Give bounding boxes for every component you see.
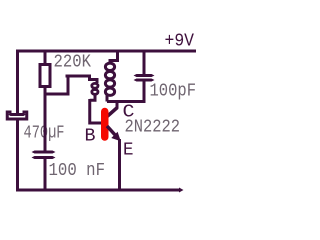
- wire C4 bottom lead to ground rail: [44, 159, 47, 190]
- wire ground rail (bottom): [16, 189, 180, 192]
- inductor L1 primary loop 4: [105, 88, 114, 95]
- capacitor C1 100pF top plate: [134, 74, 155, 77]
- capacitor C4 100nF bottom plate: [32, 156, 56, 159]
- capacitor C1 100pF top lead from rail: [143, 51, 146, 74]
- transistor Q1 collector diagonal: [107, 108, 118, 118]
- capacitor C1 100pF bottom lead: [143, 82, 146, 102]
- inductor L1 primary loop 2: [105, 71, 114, 78]
- svg-text:220K: 220K: [54, 53, 92, 73]
- inductor L1 secondary loop 1: [92, 83, 98, 88]
- inductor L1 secondary bottom lead: [90, 94, 95, 100]
- capacitor C2 470uF top plate: [8, 113, 26, 116]
- inductor L1 secondary loop 2: [92, 90, 98, 95]
- ground rail end tick: [179, 188, 184, 193]
- transistor Q1 emitter lead vertical to ground rail: [118, 139, 121, 191]
- resistor R1 top lead: [44, 51, 47, 63]
- transistor Q1 emitter diagonal: [107, 126, 116, 136]
- transistor Q1 emitter arrowhead: [111, 132, 121, 142]
- svg-text:100pF: 100pF: [150, 82, 197, 102]
- transistor Q1 collector lead vertical: [116, 100, 119, 109]
- svg-text:100 nF: 100 nF: [49, 161, 106, 181]
- inductor L1 primary loop 1: [105, 63, 114, 70]
- svg-text:E: E: [123, 141, 134, 161]
- svg-text:B: B: [85, 127, 96, 147]
- wire node jog to feedback winding: [44, 76, 69, 94]
- wire C2 bottom to ground rail: [16, 121, 19, 192]
- capacitor C1 100pF bottom plate: [134, 79, 155, 82]
- transistor Q1 base bar: [101, 112, 109, 138]
- wire base down-then-right: [90, 99, 102, 123]
- wire node down to C4: [44, 94, 47, 151]
- resistor R1 body: [40, 65, 50, 87]
- svg-text:2N2222: 2N2222: [125, 118, 181, 138]
- inductor L1 secondary (feedback winding) top lead: [66, 76, 98, 83]
- inductor L1 primary bottom lead: [106, 95, 109, 102]
- wire top +9V rail: [16, 50, 196, 53]
- inductor L1 primary top lead from rail: [110, 51, 118, 63]
- svg-text:+9V: +9V: [165, 32, 195, 52]
- capacitor C4 100nF top plate: [32, 151, 56, 154]
- wire collector node horizontal: [107, 100, 146, 103]
- wire left vertical (battery + side down to C2): [16, 50, 19, 114]
- inductor L1 primary loop 3: [105, 80, 114, 87]
- resistor R1 bottom lead: [44, 86, 47, 94]
- capacitor C2 470uF curved bottom plate (cup): [7, 112, 27, 119]
